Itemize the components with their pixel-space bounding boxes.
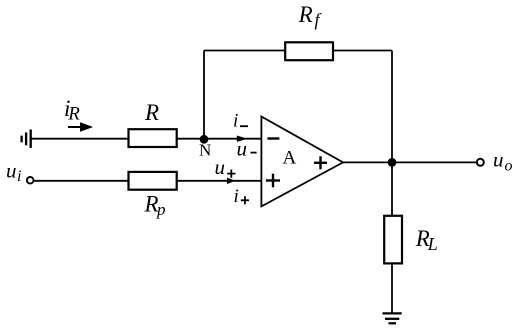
op-amp plus input sign xyxy=(266,174,280,188)
wire (inverting input wire from ground through R to op-amp) xyxy=(31,138,262,140)
wire (from RL down to ground) xyxy=(391,264,393,314)
svg-text:i: i xyxy=(17,168,21,185)
label u- (inverting input voltage) xyxy=(237,136,257,160)
wire (top feedback wire through Rf) xyxy=(204,50,392,52)
label RL (load resistor value) xyxy=(415,226,438,254)
current arrow iR xyxy=(68,122,93,131)
label Rp (balance resistor value) xyxy=(144,192,166,219)
resistor Rf xyxy=(285,42,333,60)
label iR xyxy=(64,96,80,125)
svg-text:i: i xyxy=(233,110,238,131)
label Rf (feedback resistor value) xyxy=(298,2,323,30)
op-amp minus input sign xyxy=(267,137,279,139)
label u+ (non-inverting input voltage) xyxy=(215,155,236,179)
svg-text:R: R xyxy=(67,104,80,125)
label ui (input voltage) xyxy=(6,159,21,186)
label uo (output voltage) xyxy=(493,148,513,175)
svg-text:L: L xyxy=(427,234,438,254)
terminal uo (open circle) xyxy=(477,159,484,166)
op-amp U1 (triangle) xyxy=(261,117,343,207)
wire (right vertical wire from feedback to output node and RL) xyxy=(391,51,393,217)
wire (non-inverting input wire from ui terminal through Rp to op-amp) xyxy=(34,180,262,182)
ground (bottom, under RL) xyxy=(383,313,402,323)
svg-text:i: i xyxy=(234,186,239,207)
svg-text:u: u xyxy=(215,155,226,179)
node N (junction dot) xyxy=(200,135,209,144)
svg-text:o: o xyxy=(505,158,513,175)
svg-text:A: A xyxy=(283,148,297,169)
svg-text:u: u xyxy=(493,148,504,172)
svg-text:R: R xyxy=(144,100,159,125)
svg-text:N: N xyxy=(199,141,211,160)
wire (output wire from op-amp to uo terminal) xyxy=(343,161,477,163)
label i+ (non-inverting input current) xyxy=(234,186,250,207)
wire (vertical feedback wire from node N up) xyxy=(203,51,205,140)
svg-text:u: u xyxy=(6,159,17,183)
ground (left input ground) xyxy=(22,130,31,148)
terminal ui (open circle) xyxy=(27,177,34,184)
svg-text:p: p xyxy=(156,200,166,219)
resistor Rp xyxy=(129,172,177,190)
svg-text:R: R xyxy=(298,2,313,27)
current arrow i+ (on non-inverting input wire) xyxy=(227,178,236,184)
current arrow i- (on inverting input wire) xyxy=(237,136,248,142)
node (output junction dot) xyxy=(388,158,397,167)
resistor RL xyxy=(384,216,402,264)
resistor R xyxy=(129,129,177,147)
op-amp output polarity plus sign xyxy=(314,156,327,169)
svg-text:u: u xyxy=(237,136,248,160)
label i- (inverting input current) xyxy=(233,110,248,131)
